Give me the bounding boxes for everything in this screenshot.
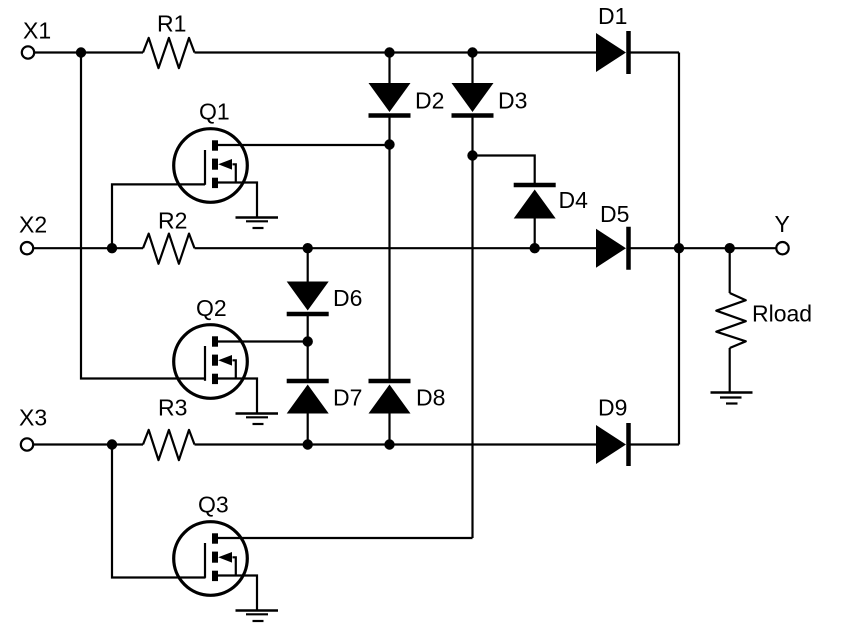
wire D5 out to Y — [630, 247, 776, 249]
diode D3 — [452, 83, 494, 116]
n-channel MOSFET Q2 — [174, 325, 248, 399]
resistor Rload — [716, 293, 746, 348]
resistor R2 — [143, 234, 195, 264]
wire D6 junction down to D7 — [307, 342, 309, 380]
diode D7 — [287, 381, 329, 414]
junction D7 bottom — [303, 439, 313, 449]
wire R1 to D1 (X1 row) — [195, 51, 597, 53]
wire Q2 drain to D6 junction — [215, 340, 308, 342]
junction right rail / X2 row — [674, 243, 684, 253]
junction D6 top — [303, 243, 313, 253]
junction D4 anode / X2 row — [530, 243, 540, 253]
svg-text:X3: X3 — [19, 405, 47, 431]
wire Q3 drain to mid rail — [215, 537, 473, 539]
svg-text:D7: D7 — [333, 385, 362, 411]
junction Q1 drain / D2 — [384, 139, 394, 149]
diode D8 — [369, 381, 411, 414]
svg-text:D4: D4 — [559, 187, 589, 213]
junction D3 top — [467, 47, 477, 57]
junction D3 / Q3 drain rail — [467, 150, 477, 160]
input terminal X3 — [21, 438, 33, 450]
junction Rload tap — [725, 243, 735, 253]
svg-text:Q1: Q1 — [199, 99, 230, 125]
wire D6 anode link — [307, 248, 309, 282]
wire Q3 source to ground — [215, 576, 258, 611]
input terminal X2 — [21, 242, 33, 254]
wire D3 anode link — [471, 53, 473, 85]
svg-text:Rload: Rload — [752, 301, 812, 327]
diode D2 — [369, 83, 411, 116]
wire Q2 source to ground — [215, 379, 258, 414]
wire X1 drop to Q2 gate level — [81, 53, 206, 379]
resistor R1 — [143, 38, 195, 68]
wire X1 terminal to R1 — [35, 51, 144, 53]
junction X1/vertical drop — [76, 47, 86, 57]
wire D6 cathode to junction — [307, 316, 309, 342]
wire Q1 gate to X2 — [112, 184, 205, 248]
wire Q1 source to ground — [215, 183, 258, 218]
ground (Q1 source) — [236, 218, 279, 229]
wire Rload top — [729, 248, 731, 293]
svg-text:D6: D6 — [333, 285, 362, 311]
svg-text:Q3: Q3 — [198, 492, 229, 518]
junction D2 top — [384, 47, 394, 57]
wire D2 anode link — [388, 53, 390, 85]
svg-text:D5: D5 — [600, 201, 629, 227]
n-channel MOSFET Q3 — [174, 522, 248, 596]
wire Q1 drain to D2 junction — [215, 144, 390, 146]
wire D7 anode to X3 row — [307, 414, 309, 445]
wire X3 terminal to R3 — [34, 443, 144, 445]
svg-text:R3: R3 — [158, 395, 187, 421]
svg-text:D9: D9 — [598, 395, 627, 421]
wire D9 out to right rail — [630, 443, 679, 445]
wire D3 cathode to junction — [471, 117, 473, 156]
junction D8 bottom — [384, 439, 394, 449]
diode D1 — [596, 31, 629, 74]
ground (Q2 source) — [236, 414, 279, 425]
resistor R3 — [143, 430, 195, 460]
wire Rload bottom — [729, 348, 731, 393]
svg-text:D8: D8 — [416, 385, 445, 411]
svg-text:D3: D3 — [498, 88, 527, 114]
ground (Rload) — [711, 393, 753, 404]
svg-text:D1: D1 — [598, 3, 627, 29]
diode D5 — [596, 227, 629, 270]
svg-text:X2: X2 — [19, 212, 47, 238]
svg-text:R1: R1 — [157, 11, 186, 37]
svg-text:X1: X1 — [23, 18, 51, 44]
output terminal Y — [776, 242, 788, 254]
junction X2 / Q1 gate — [107, 243, 117, 253]
wire D8 anode to X3 row — [388, 414, 390, 445]
junction Q2 drain / D6-D7 — [303, 336, 313, 346]
input terminal X1 — [22, 46, 34, 58]
diode D6 — [287, 282, 329, 315]
wire right rail vertical — [678, 53, 680, 445]
diode D4 — [514, 185, 556, 219]
junction X3 / Q3 gate — [107, 439, 117, 449]
wire D4 anode down to X2 row — [534, 219, 536, 249]
wire R3 to D9 (X3 row) — [195, 443, 597, 445]
wire X2 terminal to R2 — [34, 247, 144, 249]
diode D9 — [596, 423, 629, 466]
ground (Q3 source) — [236, 611, 279, 622]
svg-text:Q2: Q2 — [196, 295, 227, 321]
wire D1 out to right rail — [630, 51, 679, 53]
n-channel MOSFET Q1 — [174, 129, 248, 203]
wire D3 junction to D4 cathode — [473, 156, 535, 184]
wire R2 to D5 (X2 row) — [195, 247, 597, 249]
svg-text:R2: R2 — [158, 208, 187, 234]
svg-text:Y: Y — [775, 211, 790, 237]
wire mid rail down to Q3 drain — [471, 156, 473, 539]
wire D2 junction down to D8 — [388, 145, 390, 380]
wire X3 drop to Q3 gate — [112, 445, 206, 578]
svg-text:D2: D2 — [415, 88, 444, 114]
wire D2 cathode to junction — [388, 117, 390, 145]
